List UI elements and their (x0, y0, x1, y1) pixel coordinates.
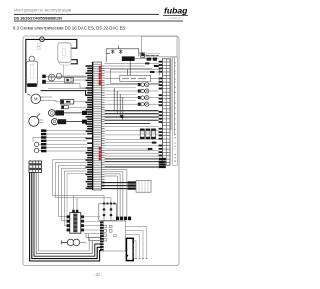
AVR block U2 (120, 75, 151, 81)
breaker QF1 (141, 53, 160, 61)
svg-text:8.3 Схема электрическая DS 16: 8.3 Схема электрическая DS 16 DAC ES, DS… (13, 26, 125, 31)
main breaker QS1 (126, 238, 133, 260)
relay K1 (67, 210, 84, 233)
connector X1 rungs (93, 64, 102, 189)
wire stair 4 (61, 168, 86, 221)
wire corner down 4 (105, 176, 118, 217)
glow plug E2 (52, 119, 88, 125)
wire hook lower (71, 60, 78, 64)
wire column out 1 (101, 182, 127, 184)
wire lug mid 1 (105, 142, 152, 144)
resistor R1 (141, 53, 145, 58)
wire starter thin (48, 87, 87, 89)
fuel tank T1 (58, 43, 72, 65)
svg-text:fubag: fubag (164, 6, 188, 16)
wire pump to connector (45, 97, 87, 107)
DSE lug cluster (159, 158, 166, 168)
wire stair 1 (52, 160, 104, 204)
wire heavy bus 2 (105, 113, 159, 115)
connector X1 red flags middle (99, 147, 101, 160)
wire lugs to connector (46, 130, 86, 132)
wire battery heavy 3 (34, 172, 102, 256)
battery GB1 cap (29, 56, 34, 61)
water temp sensor B1 (48, 74, 55, 81)
wire drop 1 (86, 234, 102, 238)
connector block X5 (101, 221, 126, 251)
wire QS1 top drop 4 (133, 241, 136, 258)
wire mid verticals (114, 61, 130, 120)
wire stair 6 (66, 173, 86, 230)
diode D3 (111, 49, 114, 54)
wire charge out (135, 53, 159, 59)
connector X1 left pins (86, 65, 93, 189)
legend box X10 (142, 36, 178, 57)
wire battery heavy 2 (32, 172, 102, 258)
svg-text:DS 16/20/27/40/55/68/88/100: DS 16/20/27/40/55/68/88/100 (14, 16, 62, 20)
wire stair 2 (55, 163, 111, 204)
terminal lugs column (41, 129, 46, 132)
connector X3 rungs (162, 62, 170, 163)
wire X5 right drop 1 (126, 227, 147, 258)
starter motor M1 (27, 94, 44, 104)
wire bus top (105, 63, 159, 72)
junction lugs (128, 181, 136, 189)
fubag logo (163, 6, 188, 20)
connector X1 body (93, 62, 102, 190)
solenoid Y1 (65, 77, 73, 82)
connector X1 red flags top (99, 66, 101, 86)
connector X1 left edge heavy (92, 62, 94, 190)
battery GB1 body (27, 61, 38, 87)
splice connector S3 (151, 129, 155, 139)
indicator lamp HL2 (138, 89, 151, 93)
junction box small (136, 180, 151, 192)
wire heavy to DSE lug 1 (105, 158, 159, 160)
wire heavy bus 1 (105, 110, 159, 112)
terminal blobs (145, 62, 158, 73)
wire battery heavy 4 (36, 172, 102, 253)
wire heavy bus 3 (105, 116, 159, 118)
svg-text:www.fubag.ru: www.fubag.ru (169, 17, 182, 20)
wire column out 2 (101, 185, 127, 187)
wire lamps feed (105, 85, 159, 105)
wire bundle to DSE lugs thin (105, 150, 159, 164)
wire sensors to connector (46, 76, 87, 88)
fuel gauge sender P1 (29, 113, 43, 126)
wire heavy bus 4 (105, 119, 159, 121)
glow plug E1 (49, 110, 88, 117)
wire avr loop (105, 69, 160, 83)
svg-text:DSE 702 AS 1 2 3 4 5 6 7 8 9: DSE 702 AS 1 2 3 4 5 6 7 8 9 10 11 12 (173, 61, 177, 162)
wire QS1 top drop 5 (132, 244, 134, 258)
wire X5 right drop 3 (126, 235, 140, 258)
diode D2 (34, 148, 38, 152)
diode D4 (119, 49, 122, 54)
schematic frame (23, 36, 179, 266)
label box vertical (172, 57, 177, 165)
wire aux feeds (105, 88, 136, 101)
lug row on X5 top (116, 217, 131, 221)
header rule 2 (14, 20, 183, 23)
wire box to ladder (171, 57, 174, 135)
header rule 1 (14, 13, 159, 16)
wire corner down 1 (105, 170, 127, 217)
wire corner down 2 (105, 172, 123, 217)
label marker faint (37, 43, 40, 49)
connector X1 right ticks (101, 66, 104, 188)
wire heavy bus 5 (105, 122, 150, 124)
wire lug mid 2 (105, 148, 148, 150)
fuel pump M2 (60, 100, 73, 104)
wire thin group A (105, 127, 159, 146)
diode D1 (34, 142, 38, 146)
connector X3 left stubs (159, 61, 163, 163)
wire top feed (26, 39, 77, 93)
indicator lamp HL4 (138, 102, 151, 106)
wire heavy to DSE lug 3 (105, 166, 159, 168)
node joins (33, 137, 41, 150)
wire column out 3 (101, 188, 127, 190)
generator G1 circle-H (40, 37, 45, 42)
contactor box with studs (99, 203, 117, 221)
X5 left lug column (100, 222, 104, 251)
rectifier block V1 (122, 56, 135, 61)
splice connector S2 (146, 129, 150, 139)
fuse pair FU1 (62, 239, 87, 246)
indicator lamp HL1 (138, 83, 151, 87)
wire lug ends mid (148, 142, 157, 150)
wire battery heavy 1 (30, 172, 102, 261)
bus tap blob (121, 115, 124, 118)
wire starter heavy (41, 91, 87, 96)
connector X3 ladder body (162, 59, 170, 165)
wire heavy to DSE lug 2 (105, 161, 159, 163)
terminal block X2 (29, 161, 42, 172)
fuel valve Y2 (61, 106, 68, 109)
wire bottom links (84, 217, 100, 234)
svg-text:- 37 -: - 37 - (94, 273, 103, 277)
svg-text:M: M (34, 97, 38, 102)
wire stair 5 (64, 171, 86, 225)
QS1 junction dot (126, 255, 128, 257)
charge circuit loop (106, 45, 139, 62)
wire tank pigtail (63, 65, 65, 78)
wire relay top feeds (73, 196, 77, 210)
indicator lamp HL3 (138, 96, 151, 100)
wire corner down 3 (105, 174, 121, 217)
svg-text:Инструкция по эксплуатации: Инструкция по эксплуатации (14, 7, 72, 12)
wire drop 2 (89, 234, 102, 241)
splice connector S1 (140, 129, 144, 139)
wire X5 to QS1 (126, 248, 128, 250)
wire X5 right drop 2 (126, 231, 143, 258)
drop end ticks (133, 258, 148, 260)
oil pressure sensor B2 (42, 75, 46, 84)
sensor B3 (56, 73, 61, 78)
wire stair 3 (58, 165, 86, 216)
wire battery heavy 5 (38, 172, 101, 251)
